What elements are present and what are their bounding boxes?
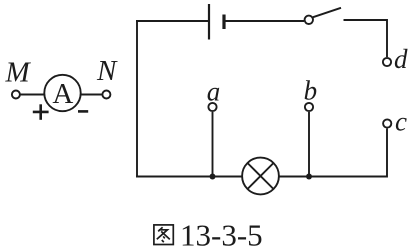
terminal M (left circle of ammeter lead) [12,91,20,99]
terminal b circle [305,103,313,111]
junction node at b [306,174,312,180]
polarity minus sign [78,110,88,113]
wire switch contact to top-right corner [344,20,388,57]
svg-text:d: d [394,44,408,74]
terminal a circle [208,103,216,111]
svg-text:N: N [96,55,118,87]
lamp cross stroke 2 [248,163,274,189]
svg-text:a: a [207,76,221,106]
ammeter A1 body [44,75,80,111]
lamp cross stroke 1 [248,163,274,189]
wire b stub [308,112,310,177]
wire left vertical of loop [136,21,138,177]
terminal d circle [383,58,391,66]
battery long plate (+) [208,4,210,40]
terminal N (right circle of ammeter lead) [102,91,110,99]
wire bottom left (corner to lamp) [136,176,242,178]
wire ammeter to N terminal [81,94,102,96]
terminal c circle [383,119,391,127]
switch lever (open) [313,8,341,17]
junction node at a [210,174,216,180]
svg-text:c: c [395,107,407,137]
svg-text:13-3-5: 13-3-5 [180,217,263,249]
wire M terminal to ammeter [21,94,45,96]
svg-text:A: A [52,78,73,110]
wire top left (loop corner to battery) [136,20,208,22]
svg-text:b: b [304,76,318,106]
switch pivot circle S [305,16,313,24]
battery short plate (-) [222,15,225,30]
polarity plus sign [33,104,49,120]
wire c down to bottom-right corner [280,129,388,177]
wire battery to switch [226,20,305,22]
lamp L1 body [242,158,279,195]
caption hanzi "tu" (drawn) [154,225,173,245]
wire a stub [212,112,214,177]
svg-text:M: M [5,57,32,89]
